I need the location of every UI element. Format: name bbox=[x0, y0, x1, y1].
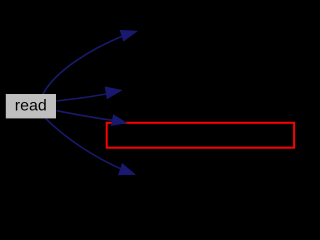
arrowhead edge3 bbox=[112, 115, 127, 125]
arrowhead edge4 bbox=[119, 164, 135, 175]
wire edge3 read->red node bbox=[57, 111, 113, 121]
svg-text:read: read bbox=[15, 98, 47, 115]
wire edge1 read->top bbox=[43, 37, 122, 95]
wire edge4 read->bottom bbox=[46, 118, 121, 169]
wire edge2 read->second bbox=[57, 94, 107, 101]
arrowhead edge1 bbox=[120, 30, 136, 41]
node read box bbox=[6, 94, 56, 118]
red highlighted node bbox=[107, 123, 294, 148]
arrowhead edge2 bbox=[105, 87, 121, 99]
